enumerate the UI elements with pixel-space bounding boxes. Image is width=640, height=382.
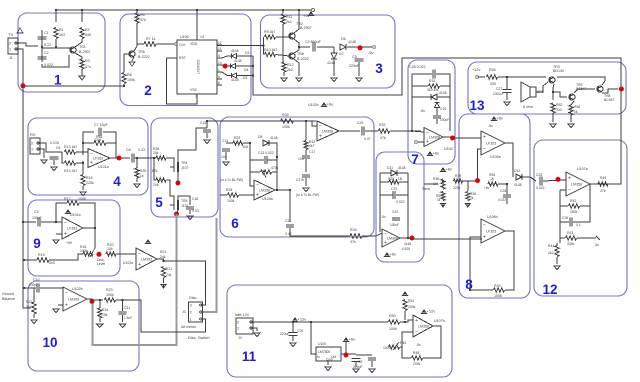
- svg-text:5: 5: [218, 75, 220, 79]
- svg-text:24k: 24k: [166, 273, 172, 277]
- label TR4b: [576, 83, 583, 87]
- label R39: [455, 174, 461, 178]
- pot arrow R49: [393, 342, 399, 350]
- svg-text:BC547: BC547: [604, 98, 614, 102]
- svg-text:+6v: +6v: [327, 102, 334, 107]
- svg-text:+6v: +6v: [497, 116, 504, 121]
- value R49: [383, 346, 392, 350]
- wire r48 to minus: [402, 332, 413, 358]
- value R32: [380, 136, 386, 140]
- label R32: [379, 123, 386, 127]
- label R15: [94, 138, 102, 142]
- label 5: [155, 195, 163, 210]
- wire c14 gnd: [225, 152, 227, 160]
- capacitor C17b: [302, 175, 310, 177]
- svg-text:C21: C21: [285, 219, 291, 223]
- wire reg arrow stub: [345, 342, 347, 354]
- svg-text:R14 4k7: R14 4k7: [64, 169, 77, 173]
- capacitor C26a: [503, 195, 511, 197]
- transistor TR5b BC547: [597, 86, 603, 92]
- capacitor C7: [99, 128, 101, 137]
- value C27: [493, 92, 504, 96]
- junction C9-col: [22, 221, 24, 223]
- svg-text:+6v: +6v: [446, 167, 453, 172]
- svg-text:330: 330: [556, 108, 562, 112]
- wire r1 bottom to base: [55, 39, 57, 48]
- wire r14 link: [62, 152, 64, 163]
- label 2: [144, 83, 152, 98]
- wire c26b l: [560, 221, 569, 223]
- svg-text:−: −: [64, 220, 67, 226]
- diode D8 4148: [263, 140, 269, 146]
- svg-text:C6: C6: [56, 146, 60, 150]
- arrow +12v u107b: [421, 309, 435, 315]
- group box 5: [151, 118, 218, 217]
- wire tr1 emitter: [75, 39, 82, 47]
- svg-text:LM358: LM358: [322, 130, 333, 134]
- wire c13 wires: [250, 159, 264, 161]
- label R11: [286, 15, 292, 19]
- net +12v b13: [472, 68, 480, 72]
- label U102b: [72, 287, 83, 291]
- wire r9 to tr2: [276, 36, 289, 38]
- op-amp U107b LM358: [413, 315, 433, 337]
- svg-text:TX: TX: [8, 32, 13, 37]
- arrow +6v reg: [343, 337, 355, 343]
- svg-text:100k: 100k: [106, 293, 114, 297]
- wire base link: [42, 47, 70, 49]
- svg-text:2k2: 2k2: [548, 251, 554, 255]
- value D11b: [404, 242, 411, 246]
- wire c9 to opamp: [41, 221, 62, 223]
- wire input split: [263, 37, 265, 55]
- label R12: [287, 63, 294, 67]
- node u107a in: [556, 177, 561, 182]
- resistor R17: [67, 201, 79, 205]
- capacitor C17: [302, 156, 310, 158]
- gnd arrow r37: [440, 203, 445, 207]
- node sample pulse: [223, 64, 228, 69]
- diode D11 4148: [391, 170, 397, 176]
- wire r39 to dot: [462, 180, 477, 182]
- label D6: [341, 37, 346, 41]
- group box 1: [18, 13, 105, 92]
- wire c26 stub: [506, 184, 508, 194]
- junction TR2-TR8-C4: [298, 46, 300, 48]
- wire tr8 collector: [294, 47, 299, 53]
- svg-text:C26: C26: [562, 216, 568, 220]
- label C22: [392, 210, 398, 214]
- pot arrow R18: [90, 248, 95, 257]
- svg-text:D7: D7: [339, 52, 344, 56]
- svg-text:220uF: 220uF: [349, 64, 360, 68]
- wire r56 dn: [570, 115, 572, 122]
- value C14: [221, 155, 227, 159]
- svg-text:5: 5: [155, 195, 163, 210]
- value R50: [389, 327, 397, 331]
- label 13: [469, 98, 485, 113]
- wire dot to u106a: [478, 149, 482, 181]
- svg-text:1000uF: 1000uF: [493, 92, 504, 96]
- svg-text:15k: 15k: [102, 313, 108, 317]
- wire rail to R11: [282, 10, 284, 13]
- svg-text:-5v: -5v: [416, 343, 421, 347]
- wire u105 out ext: [412, 238, 482, 240]
- label R48: [413, 351, 419, 355]
- svg-text:−: −: [65, 291, 68, 297]
- svg-text:24k: 24k: [160, 255, 166, 259]
- value D12: [514, 183, 522, 187]
- ground r52: [550, 124, 556, 127]
- label 1: [54, 73, 62, 88]
- svg-text:C7 10pF: C7 10pF: [94, 123, 109, 127]
- label R13: [64, 145, 77, 149]
- op-amp U107a LM358: [566, 172, 590, 196]
- svg-text:LM358: LM358: [259, 189, 270, 193]
- op-amp U106b LF353: [481, 219, 505, 243]
- svg-text:100k: 100k: [494, 294, 502, 298]
- svg-text:C10: C10: [33, 278, 40, 282]
- label 11: [242, 349, 257, 364]
- wire c20b gnd: [292, 336, 294, 341]
- label 8ohm: [523, 105, 533, 109]
- wire tr1 collector: [75, 53, 82, 59]
- wire u104 in minus: [412, 131, 424, 132]
- svg-text:2: 2: [9, 41, 11, 45]
- wire u102b out: [87, 299, 92, 301]
- svg-text:1: 1: [190, 317, 192, 321]
- wire c26b r: [573, 206, 590, 222]
- label D3: [231, 49, 239, 53]
- wire r17 left: [56, 203, 67, 222]
- svg-text:RST: RST: [179, 56, 186, 60]
- wire pot bottom: [33, 314, 35, 318]
- label U101b: [70, 213, 81, 217]
- arrow +6v u104: [427, 151, 439, 157]
- svg-text:14: 14: [200, 35, 204, 39]
- wire fb r15 left: [83, 142, 94, 144]
- value D7: [327, 61, 335, 65]
- svg-text:R15: R15: [96, 135, 102, 139]
- label R40: [494, 284, 501, 288]
- svg-text:R7 1k: R7 1k: [146, 37, 156, 41]
- svg-text:220k: 220k: [86, 181, 94, 185]
- svg-text:TR1: TR1: [79, 45, 86, 49]
- svg-text:D4: D4: [244, 68, 248, 72]
- wire u101b plus gnd: [56, 233, 62, 235]
- svg-text:LM358: LM358: [571, 183, 582, 187]
- svg-text:7: 7: [411, 152, 419, 167]
- ground r16: [80, 192, 86, 195]
- resistor R48: [412, 356, 423, 360]
- wire fb up: [83, 132, 94, 155]
- pin Q7: [218, 81, 220, 85]
- junction rail-R1: [55, 9, 57, 11]
- terminal +5v: [312, 9, 315, 12]
- resistor R25: [135, 168, 139, 178]
- svg-text:U106b: U106b: [487, 215, 498, 219]
- wire d9 r: [437, 96, 450, 98]
- wire d7 lead: [333, 47, 335, 53]
- label U106a: [490, 155, 501, 159]
- label C16: [192, 197, 198, 201]
- resistor R40: [494, 288, 505, 292]
- wire r28 right: [239, 194, 254, 196]
- svg-text:C19: C19: [440, 107, 446, 111]
- svg-text:10k: 10k: [107, 247, 113, 251]
- resistor R24: [98, 308, 102, 318]
- wire r6 to tr6 base: [136, 23, 138, 44]
- group box 7 lower: [376, 152, 424, 262]
- svg-text:1: 1: [218, 68, 220, 72]
- svg-text:100k: 100k: [227, 199, 235, 203]
- wire out right: [164, 261, 206, 302]
- junction D5-bus: [252, 75, 254, 77]
- label R29: [234, 136, 240, 140]
- ground reg: [325, 367, 331, 370]
- svg-text:+: +: [65, 303, 68, 309]
- wire r22 l: [412, 85, 428, 87]
- svg-text:−: −: [483, 223, 486, 229]
- svg-text:R56: R56: [574, 105, 580, 109]
- svg-text:Sens: Sens: [422, 187, 430, 191]
- ground c15: [204, 140, 210, 143]
- label D4b: [244, 68, 248, 72]
- svg-text:D12: D12: [514, 169, 520, 173]
- wire c4 to d7: [317, 46, 334, 48]
- svg-text:LM308: LM308: [387, 237, 398, 241]
- wire c1 c2 chain: [41, 30, 43, 62]
- note bl1: [220, 178, 243, 182]
- label R52: [556, 103, 562, 107]
- wire fb box: [250, 143, 254, 186]
- label U102a: [123, 261, 133, 265]
- svg-text:(or 4.7v BL-PW): (or 4.7v BL-PW): [296, 193, 319, 197]
- ground u102b plus: [53, 309, 59, 312]
- svg-text:C20: C20: [357, 121, 363, 125]
- svg-text:Disc.: Disc.: [189, 296, 197, 300]
- diode D6 4148: [340, 44, 346, 50]
- arrow +5v u102a: [145, 240, 150, 244]
- capacitor C26b: [570, 218, 572, 227]
- value C8: [138, 148, 145, 152]
- label D5: [231, 78, 239, 82]
- net -5v: [368, 50, 374, 55]
- value R44: [548, 251, 554, 255]
- svg-text:220uF: 220uF: [280, 332, 290, 336]
- wire gray sample A: [93, 214, 177, 345]
- junction C8-R25: [136, 157, 138, 159]
- wire 12v bus: [293, 321, 388, 323]
- label R23b: [106, 288, 113, 292]
- regulator U100 LM7805: [316, 347, 341, 362]
- resistor R37: [441, 192, 445, 201]
- svg-text:100k: 100k: [80, 249, 88, 253]
- svg-text:R39: R39: [455, 174, 461, 178]
- label U103b: [308, 103, 319, 107]
- label 3: [375, 61, 383, 76]
- value TR2: [300, 26, 312, 30]
- junction R8-ref: [123, 85, 125, 87]
- svg-text:4148: 4148: [231, 78, 239, 82]
- group box 9: [28, 200, 120, 276]
- resistor R28: [228, 193, 239, 197]
- svg-text:47k: 47k: [140, 18, 146, 22]
- junction R23a-node: [163, 260, 165, 262]
- wire c8 out: [134, 157, 151, 159]
- diode D9 4148: [431, 94, 437, 100]
- wire batt main: [253, 321, 293, 323]
- resistor R27: [156, 178, 166, 182]
- value TR6: [138, 55, 150, 59]
- arrow +6v u103b: [321, 102, 333, 108]
- wire fb c7 right: [103, 132, 116, 158]
- label TR1: [79, 45, 86, 49]
- transistor TR4 J107: [170, 162, 178, 172]
- svg-text:R21: R21: [160, 250, 166, 254]
- diode D4 4148: [230, 63, 235, 68]
- wire u102b plus: [58, 304, 63, 306]
- node tx ref: [21, 83, 26, 88]
- svg-text:1: 1: [237, 326, 239, 330]
- label R15b: [96, 135, 102, 139]
- node -5v: [358, 45, 363, 50]
- value C16: [192, 209, 199, 213]
- wire r43 l: [560, 237, 565, 239]
- wire c15 gnd: [206, 133, 208, 138]
- wire tr4b col: [574, 89, 584, 93]
- arrow +5v u101b: [65, 210, 70, 214]
- clk bubble: [175, 43, 178, 46]
- value R33: [309, 144, 315, 148]
- value D11: [398, 166, 406, 170]
- svg-text:100k: 100k: [282, 125, 290, 129]
- value D8: [270, 136, 278, 140]
- svg-text:100pF: 100pF: [29, 283, 38, 287]
- wire pin3 stub: [201, 302, 206, 305]
- capacitor C11: [119, 312, 127, 314]
- value R30: [282, 125, 290, 129]
- svg-text:+6v: +6v: [349, 337, 356, 342]
- capacitor C28: [433, 70, 435, 79]
- wire reg com: [327, 361, 329, 365]
- wire c21 out: [290, 228, 350, 236]
- junction R1-base: [55, 46, 57, 48]
- label 12: [542, 282, 557, 297]
- resistor R30: [281, 119, 294, 123]
- label C7: [94, 123, 109, 127]
- wire r52 dn: [552, 113, 554, 122]
- wire +5v top rail: [56, 9, 311, 11]
- label C9: [34, 210, 39, 214]
- resistor R38: [466, 192, 470, 201]
- svg-text:+: +: [415, 318, 418, 324]
- transistor TR2 BC2907: [289, 33, 295, 39]
- bubble u104: [415, 141, 418, 144]
- wire tr4 drain up: [178, 128, 207, 162]
- wire u107a minus col: [559, 190, 561, 243]
- svg-text:R17: R17: [64, 197, 71, 201]
- resistor R12: [282, 62, 286, 72]
- junction R54-node: [506, 183, 508, 185]
- svg-text:TR5: TR5: [181, 199, 188, 203]
- label gndbal: [2, 292, 14, 296]
- junction TR3-col: [552, 91, 554, 93]
- value R16: [86, 181, 94, 185]
- capacitor C25: [540, 177, 542, 186]
- wire tr5b base: [584, 88, 595, 90]
- svg-text:LM358: LM358: [418, 325, 429, 329]
- wire c19 dn: [436, 119, 438, 124]
- wire top link 5-6: [207, 120, 316, 122]
- svg-text:100%: 100%: [383, 346, 392, 350]
- IC U106 CD4017: [177, 40, 217, 94]
- wire node c4: [299, 46, 310, 48]
- value C22: [390, 223, 399, 227]
- svg-text:2: 2: [190, 310, 192, 314]
- svg-text:Level: Level: [97, 262, 105, 266]
- ground c16: [187, 216, 193, 219]
- wire r22 r: [440, 85, 450, 87]
- wire Q6 pin: [217, 78, 222, 80]
- label 6: [231, 216, 239, 231]
- svg-text:4: 4: [113, 174, 121, 189]
- wire u103a out: [275, 190, 290, 222]
- wire r44 top: [556, 243, 558, 246]
- resistor R23b: [105, 298, 116, 302]
- label R22fb: [429, 79, 435, 83]
- node u105 out: [410, 236, 415, 241]
- svg-text:4148: 4148: [234, 59, 242, 63]
- connector TX J1: [8, 38, 18, 54]
- svg-text:+: +: [90, 160, 93, 166]
- svg-text:LF353: LF353: [93, 157, 103, 161]
- wire u107b out: [423, 326, 441, 358]
- wire vss loop: [167, 58, 197, 104]
- svg-text:LM393: LM393: [68, 298, 79, 302]
- label R24: [102, 308, 108, 312]
- svg-text:C23: C23: [391, 187, 397, 191]
- connector battery J4: [236, 318, 253, 334]
- capacitor C10: [37, 284, 39, 293]
- svg-text:TR6: TR6: [138, 50, 145, 54]
- resistor R18 pot: [83, 252, 93, 256]
- wire tx ref to r8: [23, 85, 124, 87]
- svg-text:-5v: -5v: [368, 50, 374, 55]
- value TR1: [79, 50, 91, 54]
- wire tr6 emitter down: [132, 57, 134, 61]
- svg-text:J1: J1: [9, 56, 13, 60]
- label R17: [64, 197, 71, 201]
- wire rail to R6: [136, 10, 138, 13]
- diode D3 4148: [231, 53, 236, 58]
- label R27: [153, 183, 159, 187]
- wire tr4b em: [571, 101, 574, 105]
- label D7: [339, 52, 344, 56]
- ground c17b: [303, 188, 309, 191]
- label C10: [33, 278, 40, 282]
- value C23: [396, 200, 405, 204]
- value D9: [439, 91, 447, 95]
- group box 7 upper: [408, 60, 455, 164]
- wire r25 gnd: [136, 178, 138, 182]
- wire tr2 emitter: [294, 26, 299, 33]
- svg-text:100k: 100k: [389, 327, 397, 331]
- pin Q1: [218, 41, 222, 45]
- wire u101b out dn: [94, 228, 96, 248]
- label C2: [44, 51, 49, 55]
- wire c20b top: [292, 322, 294, 332]
